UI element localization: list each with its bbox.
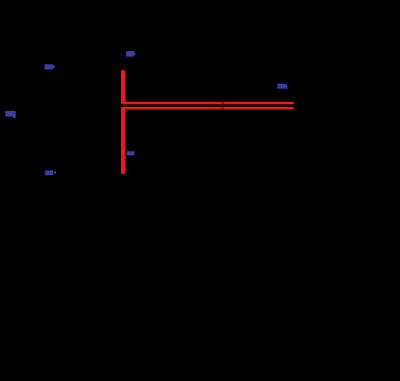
wire W2 vertical segment (bottom, highlighted red)	[121, 107, 126, 174]
wire joint on bottom rail	[221, 107, 224, 109]
pin label (lower-left)	[45, 170, 56, 175]
pin label (bottom of W2)	[127, 151, 135, 155]
wire W1 horizontal segment (top rail)	[121, 102, 294, 105]
pin label (left edge)	[5, 111, 16, 118]
net label (right end of rails)	[277, 84, 288, 89]
pin label (upper-left)	[44, 64, 55, 69]
wire W2 horizontal segment (bottom rail)	[121, 107, 294, 110]
pin label (top of W1)	[126, 51, 135, 57]
wire joint on top rail	[221, 102, 224, 104]
wire W1 vertical segment (top, highlighted red)	[121, 70, 126, 104]
